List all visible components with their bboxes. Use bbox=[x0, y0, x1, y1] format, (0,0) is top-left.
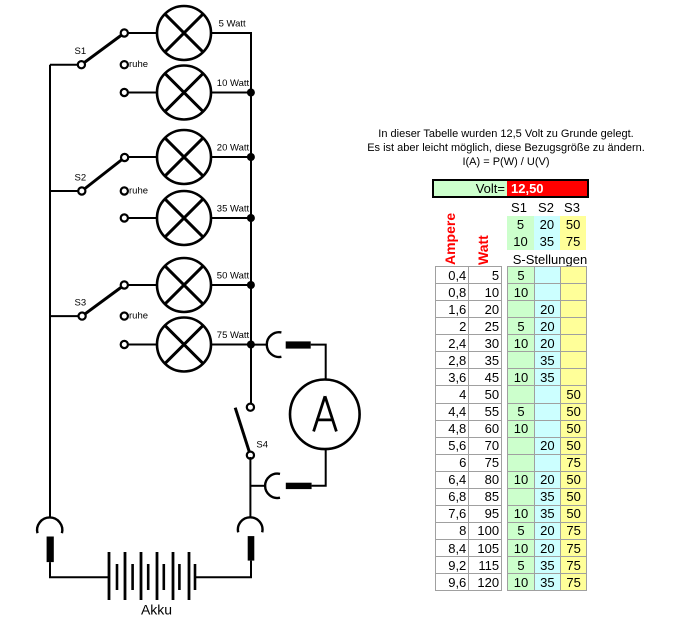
switch S3 pivot contact bbox=[79, 313, 86, 320]
lamp L1 (5 Watt) bbox=[157, 6, 211, 60]
rotated red labels bbox=[442, 212, 458, 264]
lamp L6 (75 Watt) bbox=[157, 318, 211, 372]
switch S3 ruhe contact bbox=[121, 313, 128, 320]
connector socket (bottom left, opens down) bbox=[37, 517, 62, 533]
wire: S3 feed from left bus bbox=[50, 315, 82, 317]
switch S2 pivot contact bbox=[78, 187, 85, 194]
switch S2 upper throw contact bbox=[121, 154, 128, 161]
connector socket (upper, opens right) bbox=[267, 332, 282, 357]
wire: S4 lower contact down to bottom-right connector bbox=[249, 457, 251, 517]
wire: lamp L6 right lead bbox=[211, 344, 252, 346]
wire: bottom left plug to battery minus bbox=[50, 562, 109, 577]
wire: S2 feed from left bus bbox=[50, 190, 82, 192]
lamp L3 (20 Watt) bbox=[157, 130, 211, 184]
switch S1 lever bbox=[81, 33, 124, 65]
switch S3 lower throw contact bbox=[121, 341, 128, 348]
junction node on right bus at lamp L2 bbox=[247, 89, 255, 97]
svg-text:S2: S2 bbox=[75, 172, 87, 183]
lamp L4 (35 Watt) bbox=[157, 191, 211, 245]
connector plug bar (upper) bbox=[286, 341, 311, 348]
ammeter U1 circle bbox=[290, 380, 360, 450]
svg-text:ruhe: ruhe bbox=[129, 59, 148, 70]
junction node on right bus at lamp L4 bbox=[247, 214, 255, 222]
wire: upper plug to ammeter top bbox=[311, 345, 326, 380]
junction node on right bus at lamp L3 bbox=[247, 153, 255, 161]
wire: lamp L2 right lead bbox=[211, 92, 252, 94]
svg-text:35 Watt: 35 Watt bbox=[217, 204, 250, 215]
wire: branch from 75W junction to upper connector bbox=[251, 344, 267, 346]
lamp L2 (10 Watt) bbox=[157, 66, 211, 120]
wire: branch from right bus to lower connector bbox=[250, 485, 265, 487]
svg-text:S3: S3 bbox=[75, 297, 87, 308]
colored header 2x3 bbox=[507, 216, 586, 250]
battery B1 (Akku) bbox=[109, 552, 195, 600]
svg-text:ruhe: ruhe bbox=[129, 311, 148, 322]
wire: lamp L5 left lead bbox=[124, 284, 157, 286]
switch S1 pivot contact bbox=[78, 61, 85, 68]
switch S1 ruhe contact bbox=[121, 61, 128, 68]
switch position table bbox=[507, 266, 587, 591]
connector socket (bottom right, opens down) bbox=[238, 517, 263, 532]
svg-text:10 Watt: 10 Watt bbox=[217, 78, 250, 89]
switch S4 upper contact bbox=[247, 404, 254, 411]
svg-text:20 Watt: 20 Watt bbox=[217, 143, 250, 154]
svg-text:Akku: Akku bbox=[141, 601, 172, 617]
wire: lamp L4 right lead bbox=[211, 217, 252, 219]
volt header row bbox=[432, 179, 589, 198]
switch S3 upper throw contact bbox=[121, 281, 128, 288]
svg-text:50 Watt: 50 Watt bbox=[217, 271, 250, 282]
lamp L5 (50 Watt) bbox=[157, 258, 211, 312]
switch S1 lower throw contact bbox=[121, 89, 128, 96]
junction node on right bus at lamp L6 bbox=[247, 341, 255, 349]
wire: lamp L1 left lead bbox=[124, 32, 157, 34]
svg-text:ruhe: ruhe bbox=[129, 186, 148, 197]
svg-text:S4: S4 bbox=[256, 440, 268, 451]
switch S3 lever bbox=[82, 285, 124, 316]
connector socket (lower, opens right) bbox=[265, 474, 280, 498]
svg-text:75 Watt: 75 Watt bbox=[217, 330, 250, 341]
connector plug bar (lower) bbox=[286, 483, 312, 489]
wire: bottom right plug to battery plus bbox=[196, 561, 251, 578]
switch S2 lower throw contact bbox=[121, 214, 128, 221]
svg-text:S1: S1 bbox=[75, 46, 87, 57]
wire: left bus vertical bbox=[49, 65, 51, 517]
ampere/watt table bbox=[435, 266, 502, 591]
wire: lamp L6 left lead bbox=[124, 344, 157, 346]
wire: lamp L2 left lead bbox=[124, 92, 157, 94]
svg-text:5 Watt: 5 Watt bbox=[219, 19, 246, 30]
switch S4 lower contact bbox=[247, 452, 254, 459]
wire: ammeter bottom to lower plug bbox=[312, 449, 326, 486]
wire: right bus vertical (lamps to S4) bbox=[250, 33, 252, 404]
wire: lamp L1 right lead bbox=[211, 32, 252, 34]
table header text bbox=[306, 127, 700, 169]
wire: lamp L3 right lead bbox=[211, 156, 252, 158]
switch S1 upper throw contact bbox=[121, 29, 128, 36]
switch S4 lever bbox=[235, 408, 250, 456]
wire: S1 feed from left bus bbox=[50, 64, 81, 66]
switch S2 lever bbox=[82, 158, 125, 192]
switch S2 ruhe contact bbox=[121, 187, 128, 194]
connector plug bar (bottom left) bbox=[47, 537, 54, 563]
S column labels bbox=[504, 200, 534, 215]
wire: lamp L3 left lead bbox=[124, 156, 157, 158]
connector plug bar (bottom right) bbox=[248, 536, 255, 561]
junction node on right bus at lamp L5 bbox=[247, 281, 255, 289]
wire: lamp L5 right lead bbox=[211, 284, 252, 286]
wire: lamp L4 left lead bbox=[124, 217, 157, 219]
